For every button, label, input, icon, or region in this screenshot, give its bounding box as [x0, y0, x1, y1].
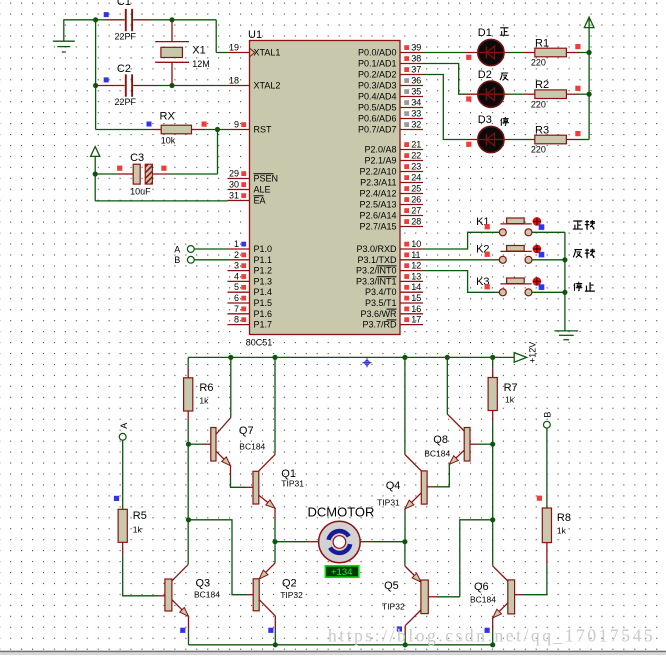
blue marker bottom 2 [268, 628, 273, 633]
svg-text:B: B [543, 412, 553, 418]
terminal A (to P1.0) [187, 246, 227, 253]
red marker near D2 [466, 96, 471, 101]
svg-text:22PF: 22PF [115, 32, 137, 42]
Chinese label zheng (forward) next to D1 [500, 28, 509, 35]
svg-text:D3: D3 [478, 114, 492, 126]
svg-text:5: 5 [234, 282, 239, 292]
resistor R7 1k [488, 357, 497, 421]
XTAL1 clock chevron [250, 49, 255, 57]
blue marker near C2 [104, 77, 109, 82]
svg-text:11: 11 [411, 250, 420, 260]
node junction X1 top [169, 17, 174, 22]
red marker C3 right [161, 166, 166, 171]
svg-text:P2.4/A12: P2.4/A12 [359, 189, 396, 199]
node junction C1-left [93, 17, 98, 22]
pin 4 (P1.3) [228, 271, 273, 286]
svg-text:P1.4: P1.4 [254, 287, 273, 297]
blue marker near RX [147, 122, 152, 127]
svg-text:22: 22 [411, 151, 421, 161]
svg-text:P2.7/A15: P2.7/A15 [359, 222, 396, 232]
svg-text:1: 1 [234, 239, 239, 249]
svg-text:P3.5/T1: P3.5/T1 [365, 298, 397, 308]
svg-text:P2.1/A9: P2.1/A9 [364, 156, 396, 166]
crystal X1 12M [155, 20, 189, 86]
svg-text:C1: C1 [117, 0, 131, 8]
svg-text:R1: R1 [535, 37, 549, 49]
blue marker bottom 3 [397, 626, 402, 631]
svg-text:25: 25 [411, 184, 421, 194]
svg-text:BC184: BC184 [194, 590, 220, 600]
svg-text:Q8: Q8 [433, 434, 448, 446]
svg-text:C2: C2 [117, 63, 131, 75]
svg-text:P2.3/A11: P2.3/A11 [360, 178, 396, 188]
node junction C2-left [93, 83, 98, 88]
pin 39 (P0.0/AD0) [358, 43, 423, 58]
node junction RST [215, 127, 220, 132]
svg-text:R5: R5 [133, 510, 147, 522]
svg-text:21: 21 [411, 140, 421, 150]
push button K3 [499, 277, 541, 296]
svg-text:23: 23 [411, 162, 421, 172]
svg-text:RX: RX [160, 111, 176, 123]
svg-text:36: 36 [411, 76, 421, 86]
red marker near R8 [537, 496, 542, 501]
svg-text:https://blog.csdn.net/qq_17017: https://blog.csdn.net/qq_17017545 [328, 626, 655, 646]
pin 24 (P2.3/A11) [360, 173, 423, 188]
svg-text:1k: 1k [199, 396, 209, 406]
svg-text:7: 7 [234, 304, 239, 314]
capacitor C2 22PF [96, 74, 151, 96]
svg-text:R8: R8 [557, 512, 571, 524]
svg-text:32: 32 [411, 120, 421, 130]
pin 33 (P0.6/AD6) [358, 109, 423, 124]
+12V arrow terminal [514, 353, 526, 363]
node junction VCC/C3 [93, 171, 98, 176]
power terminal arrow (VCC, up) [91, 147, 100, 174]
transistor Q6 BC184 [493, 566, 522, 645]
pin 17 (P3.7/RD) [362, 315, 423, 330]
svg-text:D2: D2 [478, 69, 492, 81]
wire C2 to XTAL2 pin [151, 85, 228, 87]
svg-text:XTAL2: XTAL2 [254, 81, 281, 91]
blue marker bottom 4 [485, 628, 490, 633]
node junction rail x=275 [272, 355, 277, 360]
svg-text:2: 2 [234, 250, 239, 260]
svg-text:29: 29 [229, 169, 239, 179]
svg-text:Q7: Q7 [239, 425, 254, 437]
red marker under K2 [485, 252, 490, 257]
wire VCC node down [94, 174, 96, 201]
pin 21 (P2.0/A8) [364, 140, 423, 155]
svg-text:10k: 10k [161, 136, 176, 146]
svg-text:P2.2/A10: P2.2/A10 [359, 167, 396, 177]
svg-text:TIP32: TIP32 [280, 590, 303, 600]
svg-text:15: 15 [411, 293, 421, 303]
svg-text:22PF: 22PF [115, 97, 137, 107]
svg-text:BC184: BC184 [470, 595, 496, 605]
wire into XTAL1 pin [216, 52, 227, 54]
pin 15 (P3.5/T1) [365, 293, 423, 308]
svg-text:TIP31: TIP31 [377, 498, 400, 508]
svg-text:P3.7/RD: P3.7/RD [362, 320, 397, 330]
svg-text:P3.1/TXD: P3.1/TXD [357, 255, 397, 265]
svg-text:26: 26 [411, 195, 421, 205]
pin 13 (P3.3/INT1) [356, 271, 423, 286]
Chinese label fanzhuan (reverse run) next to K2 [573, 250, 582, 258]
svg-text:33: 33 [411, 109, 421, 119]
capacitor C1 22PF [107, 9, 151, 31]
svg-text:9: 9 [234, 120, 239, 130]
svg-text:10uF: 10uF [130, 187, 151, 197]
pin 5 (P1.4) [228, 282, 273, 297]
svg-text:P0.3/AD3: P0.3/AD3 [358, 81, 397, 91]
svg-text:Q6: Q6 [474, 581, 489, 593]
red marker near D3 [466, 142, 471, 147]
resistor R1 220 [509, 48, 590, 57]
node junction K3 common [562, 290, 567, 295]
svg-text:R6: R6 [199, 382, 213, 394]
wire pin38 to D2 [423, 64, 466, 95]
svg-text:24: 24 [411, 173, 421, 183]
pin 34 (P0.5/AD5) [358, 98, 423, 113]
node junction Q5 collector/rail [403, 642, 408, 647]
svg-text:Q3: Q3 [196, 578, 211, 590]
pin 1 (P1.0) [228, 239, 273, 254]
svg-text:P0.4/AD4: P0.4/AD4 [358, 92, 397, 102]
Chinese label tingzhi (stop) next to K3 [574, 282, 583, 291]
svg-text:37: 37 [411, 65, 421, 75]
pin 8 (P1.7) [228, 315, 273, 330]
pin 3 (P1.2) [228, 261, 273, 276]
svg-text:220: 220 [531, 99, 546, 109]
wire pin11 to K2 [423, 259, 499, 261]
svg-text:P3.2/INT0: P3.2/INT0 [356, 266, 397, 276]
LED D2 [466, 81, 509, 107]
svg-text:P1.7: P1.7 [254, 320, 273, 330]
svg-text:R3: R3 [535, 124, 549, 136]
Chinese label ting (stop) next to D3 [501, 117, 509, 126]
red marker near R1 [575, 44, 580, 49]
pin 10 (P3.0/RXD) [356, 239, 423, 254]
terminal B (motor side, to R8) [544, 421, 551, 508]
resistor R5 1k [118, 433, 158, 595]
svg-text:1k: 1k [557, 526, 567, 536]
svg-text:P0.6/AD6: P0.6/AD6 [358, 114, 397, 124]
wire K1 right [532, 231, 565, 233]
DC motor [306, 521, 374, 563]
svg-text:4: 4 [234, 271, 239, 281]
vertical net C1/C2/RX left (x=95.6) [95, 20, 97, 130]
resistor R2 220 [509, 90, 590, 99]
red marker near D1 [466, 55, 471, 60]
svg-text:P3.6/WR: P3.6/WR [360, 309, 397, 319]
node junction rail x=404.9 [402, 355, 407, 360]
svg-text:P0.1/AD1: P0.1/AD1 [358, 59, 397, 69]
svg-text:28: 28 [411, 217, 421, 227]
svg-text:BC184: BC184 [239, 442, 265, 452]
pin 22 (P2.1/A9) [364, 151, 423, 166]
red marker under K3 [485, 284, 490, 289]
svg-text:+134: +134 [331, 567, 352, 578]
origin marker (blue cross) [363, 358, 372, 367]
transistor Q1 TIP31 [246, 357, 275, 541]
svg-text:1k: 1k [505, 395, 515, 405]
pin 9 (RST) [228, 120, 273, 135]
svg-text:R7: R7 [504, 382, 518, 394]
svg-text:10: 10 [411, 239, 421, 249]
svg-text:EA: EA [254, 196, 266, 206]
blue marker near K3 [539, 284, 545, 290]
node junction cross-couple right [490, 517, 495, 522]
transistor Q4 TIP31 [405, 357, 434, 541]
svg-text:Q4: Q4 [386, 480, 401, 492]
pin 37 (P0.2/AD2) [358, 65, 423, 80]
svg-text:R2: R2 [535, 79, 549, 91]
blue marker near R5 [114, 496, 119, 501]
svg-text:18: 18 [229, 76, 239, 86]
svg-text:12M: 12M [192, 59, 210, 69]
wire pin12 to K3 [423, 271, 499, 293]
node junction Q8 base [490, 442, 495, 447]
node junction X1 bottom [169, 83, 174, 88]
svg-text:RST: RST [254, 125, 273, 135]
svg-text:P3.3/INT1: P3.3/INT1 [356, 276, 397, 286]
wire pin37 to D3 [423, 75, 466, 140]
red marker under K1 [485, 224, 490, 229]
pin 2 (P1.1) [228, 250, 273, 265]
+5V power arrow (top right) [584, 17, 594, 53]
blue marker near K1 [539, 224, 545, 230]
svg-text:P2.0/A8: P2.0/A8 [364, 145, 396, 155]
svg-text:14: 14 [411, 282, 421, 292]
pin 14 (P3.4/T0) [365, 282, 423, 297]
svg-text:P0.7/AD7: P0.7/AD7 [358, 125, 397, 135]
+12V rail [188, 356, 514, 358]
wire buttons common vertical [564, 232, 566, 292]
pin 25 (P2.4/A12) [359, 184, 423, 199]
wire K2 right [532, 259, 565, 261]
push button K1 [499, 217, 541, 236]
svg-text:XTAL1: XTAL1 [254, 48, 281, 58]
node junction rail x=492.7 [490, 355, 495, 360]
pin 36 (P0.3/AD3) [358, 76, 423, 91]
svg-text:P1.0: P1.0 [254, 244, 273, 254]
svg-text:39: 39 [411, 43, 421, 53]
pin 26 (P2.5/A13) [359, 195, 423, 210]
svg-text:D1: D1 [478, 27, 492, 39]
svg-text:C3: C3 [130, 152, 144, 164]
resistor RX 10k (reset pulldown) [96, 125, 228, 134]
wire cross-couple right (Q6 collector to Q5 base) [460, 520, 493, 597]
svg-text:P1.1: P1.1 [254, 255, 273, 265]
pin 28 (P2.7/A15) [359, 217, 423, 232]
wire cross-couple left (Q3 collector to Q2 base) [189, 520, 248, 595]
wire pin10 to K1 [423, 232, 499, 249]
svg-text:8: 8 [234, 315, 239, 325]
wire down to pin19 row [215, 20, 217, 53]
motor speed display +134 [325, 566, 358, 578]
wire Q8 emitter to Q4 base [434, 464, 449, 486]
node junction R2 [587, 92, 592, 97]
ground symbol (buttons) [554, 292, 578, 339]
red marker near R3 [575, 131, 580, 136]
node junction rail x=447.3 [445, 355, 450, 360]
transistor Q7 BC184 [189, 357, 231, 477]
pin 11 (P3.1/TXD) [357, 250, 423, 265]
wire to C3 right [169, 173, 218, 175]
svg-text:6: 6 [234, 293, 239, 303]
svg-text:P0.2/AD2: P0.2/AD2 [358, 70, 397, 80]
push button K2 [499, 245, 541, 264]
wire gnd to node XT1 [64, 19, 96, 21]
wire RST node down [217, 130, 219, 175]
node junction Q7 base [186, 442, 191, 447]
svg-text:13: 13 [411, 271, 421, 281]
svg-text:30: 30 [229, 180, 239, 190]
node junction Q6 emitter/rail [490, 642, 495, 647]
svg-text:P3.4/T0: P3.4/T0 [365, 287, 397, 297]
node junction motor right [402, 539, 407, 544]
svg-text:Q2: Q2 [282, 578, 297, 590]
svg-text:3: 3 [234, 261, 239, 271]
node junction K2 common [562, 257, 567, 262]
svg-text:P0.5/AD5: P0.5/AD5 [358, 103, 397, 113]
svg-text:P1.2: P1.2 [254, 266, 273, 276]
svg-text:B: B [174, 255, 180, 265]
blue marker bottom 1 [180, 628, 185, 633]
capacitor C3 10uF (electrolytic) [118, 164, 170, 184]
window bottom border [0, 651, 666, 653]
svg-text:X1: X1 [192, 45, 205, 57]
node junction R1/VCC [587, 50, 592, 55]
wire to EA pin 31 [95, 200, 227, 202]
svg-text:A: A [174, 244, 180, 254]
blue marker near K2 [539, 252, 545, 258]
red marker near R2 [575, 86, 580, 91]
svg-text:27: 27 [411, 206, 421, 216]
svg-text:DCMOTOR: DCMOTOR [308, 505, 375, 520]
LED D1 [466, 39, 509, 65]
wire VCC vertical joining R1,R2,R3 [588, 53, 590, 140]
pin 29 (PSEN) [228, 169, 279, 184]
svg-text:ALE: ALE [254, 185, 271, 195]
wire motor right [374, 541, 405, 543]
transistor Q2 TIP32 [247, 542, 275, 645]
svg-text:BC184: BC184 [424, 449, 450, 459]
svg-text:P2.5/A13: P2.5/A13 [359, 200, 396, 210]
transistor Q8 BC184 [447, 357, 492, 464]
LED D3 [466, 126, 509, 152]
wire to C1 [96, 19, 107, 21]
svg-text:P0.0/AD0: P0.0/AD0 [358, 48, 397, 58]
red marker C3 left [117, 166, 122, 171]
svg-text:1k: 1k [133, 525, 143, 535]
pin 27 (P2.6/A14) [359, 206, 423, 221]
transistor Q5 TIP32 [405, 542, 460, 645]
node junction motor left [272, 539, 277, 544]
op-amp U1 body: 80C51 microcontroller [250, 41, 401, 335]
terminal B (to P1.1) [187, 256, 227, 263]
svg-text:U1: U1 [248, 29, 262, 41]
resistor R3 220 [509, 135, 590, 144]
pin 19 (XTAL1) [228, 43, 281, 58]
red marker near RX right [202, 122, 207, 127]
wire pin39 to D1 [423, 52, 466, 54]
pin 12 (P3.2/INT0) [356, 261, 423, 276]
Chinese label fan (reverse) next to D2 [500, 73, 508, 80]
pin 18 (XTAL2) [228, 76, 281, 91]
ground symbol (top left) [53, 19, 75, 52]
svg-text:+12V: +12V [528, 342, 538, 363]
pin 30 (ALE) [228, 180, 271, 195]
svg-text:P1.3: P1.3 [254, 276, 273, 286]
resistor R8 1k [522, 508, 552, 595]
pin 38 (P0.1/AD1) [358, 54, 423, 69]
wire K3 right [532, 291, 565, 293]
svg-text:TIP32: TIP32 [382, 602, 405, 612]
svg-text:34: 34 [411, 98, 421, 108]
ground/common bottom rail [189, 644, 493, 646]
svg-text:P3.0/RXD: P3.0/RXD [356, 244, 397, 254]
pin 31 (EA) [228, 191, 266, 206]
svg-text:38: 38 [411, 54, 421, 64]
svg-text:P1.5: P1.5 [254, 298, 273, 308]
resistor R6 1k [184, 357, 193, 421]
wire motor left [275, 541, 306, 543]
wire R7 bottom vertical (Q8 base / Q6 collector bus) [492, 422, 494, 566]
wire C3 left to node [95, 173, 117, 175]
pin 7 (P1.6) [228, 304, 273, 319]
svg-text:TIP31: TIP31 [281, 478, 304, 488]
svg-text:12: 12 [411, 261, 421, 271]
transistor Q3 BC184 [158, 564, 189, 644]
svg-text:220: 220 [531, 58, 546, 68]
svg-text:16: 16 [411, 304, 421, 314]
node junction Q2 collector/rail [273, 642, 278, 647]
pin 35 (P0.4/AD4) [358, 87, 423, 102]
wire C1 to corner [151, 19, 217, 21]
wire Q7 emitter to Q1 base [231, 477, 247, 487]
pin 6 (P1.5) [228, 293, 273, 308]
svg-text:35: 35 [411, 87, 421, 97]
pin 32 (P0.7/AD7) [358, 120, 423, 135]
wire R6 bottom vertical (Q7 base / Q3 collector bus) [187, 421, 189, 564]
svg-text:PSEN: PSEN [254, 174, 279, 184]
svg-text:17: 17 [411, 315, 421, 325]
svg-text:Q5: Q5 [384, 580, 399, 592]
svg-text:19: 19 [229, 43, 239, 53]
svg-text:80C51: 80C51 [246, 338, 273, 348]
pin 23 (P2.2/A10) [359, 162, 423, 177]
node junction cross-couple left [186, 517, 191, 522]
svg-text:31: 31 [229, 191, 239, 201]
svg-text:220: 220 [531, 145, 546, 155]
Chinese label zhengzhuan (forward run) next to K1 [573, 221, 583, 229]
svg-text:A: A [119, 423, 129, 429]
svg-text:P2.6/A14: P2.6/A14 [359, 211, 396, 221]
pin 16 (P3.6/WR) [360, 304, 423, 319]
node junction rail x=230.8 [228, 355, 233, 360]
blue marker near C1 [104, 12, 109, 17]
svg-text:P1.6: P1.6 [254, 309, 273, 319]
